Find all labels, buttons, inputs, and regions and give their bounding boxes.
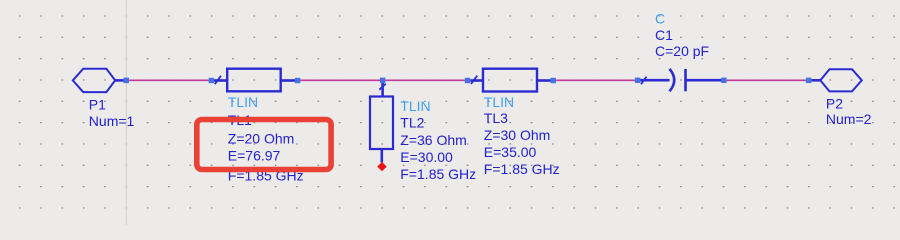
svg-text:E=30.00: E=30.00 [400, 149, 453, 165]
svg-text:E=35.00: E=35.00 [484, 144, 537, 160]
wire C1 to P2 [724, 79, 809, 81]
red highlight box [197, 120, 331, 170]
svg-text:TL3: TL3 [484, 110, 508, 126]
svg-text:Num=2: Num=2 [826, 111, 872, 127]
shunt stub TL2 [370, 83, 393, 163]
node TL3 pin1 [465, 78, 470, 83]
svg-text:Z=36 Ohm: Z=36 Ohm [400, 132, 467, 148]
svg-text:C: C [655, 11, 665, 27]
svg-text:Num=1: Num=1 [89, 113, 135, 129]
grid major vertical line [125, 0, 127, 225]
node TL1 pin2 [295, 78, 300, 83]
capacitor C1 [640, 69, 722, 91]
svg-text:TLIN: TLIN [400, 98, 430, 114]
unconnected pin marker (red diamond) TL2 pin2 [377, 162, 386, 171]
node C1 pin1 [635, 78, 640, 83]
svg-text:C=20 pF: C=20 pF [655, 43, 709, 59]
transmission line TL3 [470, 69, 550, 92]
svg-text:TLIN: TLIN [228, 94, 258, 110]
node at P2 pin [806, 78, 812, 84]
node C1 pin2 [721, 78, 726, 83]
transmission line TL1 [214, 69, 295, 92]
wire P1 to TL1 [126, 79, 211, 81]
svg-text:TLIN: TLIN [484, 94, 514, 110]
node at P1 pin [124, 78, 130, 84]
svg-text:TL2: TL2 [400, 115, 424, 131]
port P1 [73, 69, 124, 92]
junction node TL2 pin1 [380, 78, 385, 83]
svg-text:F=1.85 GHz: F=1.85 GHz [400, 166, 476, 182]
svg-text:P2: P2 [826, 96, 843, 112]
svg-text:P1: P1 [89, 96, 106, 112]
node TL3 pin2 [551, 78, 556, 83]
wire TL3 to C1 [553, 79, 637, 81]
svg-text:Z=30 Ohm: Z=30 Ohm [484, 127, 551, 143]
svg-text:C1: C1 [655, 27, 673, 43]
svg-text:E=76.97: E=76.97 [228, 148, 281, 164]
wire TL1 to TL3 through TL2 node [298, 79, 468, 81]
svg-text:Z=20 Ohm: Z=20 Ohm [228, 130, 295, 146]
node TL1 pin1 [209, 78, 214, 83]
svg-text:F=1.85 GHz: F=1.85 GHz [484, 161, 560, 177]
port P2 [811, 69, 862, 91]
